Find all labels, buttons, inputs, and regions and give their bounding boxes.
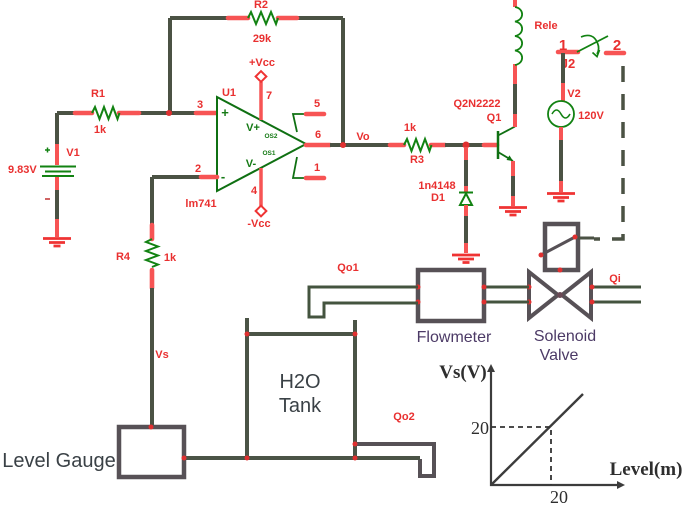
- transistor Q1: [453, 98, 515, 161]
- resistor R4: [116, 225, 177, 288]
- svg-text:20: 20: [471, 418, 489, 438]
- pipe Qi right: [527, 273, 642, 305]
- ground D1: [452, 255, 480, 263]
- wire Vs: [152, 288, 169, 427]
- pin 1 offset: [293, 157, 324, 178]
- svg-text:2: 2: [195, 163, 201, 175]
- graph dashed guides: [471, 418, 568, 506]
- wire D1 to ground: [464, 205, 468, 253]
- svg-text:R2: R2: [254, 0, 268, 11]
- flowmeter box: [416, 270, 493, 346]
- resistor R3: [390, 122, 484, 166]
- svg-text:+Vcc: +Vcc: [249, 57, 275, 69]
- svg-text:V-: V-: [246, 158, 257, 170]
- svg-text:1k: 1k: [94, 124, 107, 136]
- svg-text:Level Gauge: Level Gauge: [2, 450, 115, 472]
- source V2 120V: [548, 88, 605, 127]
- svg-text:R3: R3: [410, 154, 424, 166]
- wire V2 to ground: [559, 127, 563, 192]
- svg-text:U1: U1: [222, 87, 236, 99]
- ground V1: [43, 239, 71, 247]
- solenoid actuator box: [539, 224, 595, 273]
- svg-text:R4: R4: [116, 251, 131, 263]
- svg-text:Q1: Q1: [487, 112, 502, 124]
- svg-text:Flowmeter: Flowmeter: [417, 329, 492, 346]
- svg-text:Qo1: Qo1: [337, 262, 358, 274]
- svg-text:9.83V: 9.83V: [8, 164, 37, 176]
- svg-text:2: 2: [613, 37, 621, 54]
- svg-text:D1: D1: [431, 192, 445, 204]
- svg-text:R1: R1: [91, 88, 105, 100]
- svg-text:Valve: Valve: [540, 347, 579, 364]
- node junction R3/D1/Q1: [463, 142, 470, 149]
- wire Q1 collector: [513, 0, 517, 127]
- svg-text:Qo2: Qo2: [393, 411, 414, 423]
- graph line: [491, 394, 583, 485]
- svg-text:Level(m): Level(m): [610, 459, 683, 480]
- battery V1: [8, 113, 80, 199]
- svg-text:+: +: [221, 105, 229, 120]
- pin 4 -Vcc: [247, 168, 270, 230]
- svg-text:1k: 1k: [404, 122, 417, 134]
- pipe flowmeter to valve: [484, 287, 529, 302]
- svg-text:1n4148: 1n4148: [418, 180, 455, 192]
- pin 5 offset: [293, 98, 324, 132]
- op-amp U1: [185, 87, 306, 210]
- svg-text:1: 1: [314, 162, 320, 174]
- inductor relay coil Rele: [515, 7, 558, 65]
- svg-text:OS1: OS1: [262, 150, 275, 157]
- svg-text:Vs(V): Vs(V): [439, 362, 487, 383]
- wire tank bottom to level gauge: [184, 456, 420, 460]
- svg-text:Vs: Vs: [155, 349, 168, 361]
- pin 7 +Vcc: [249, 57, 275, 120]
- node junction R1/R2/pin3: [166, 110, 172, 116]
- svg-text:Q2N2222: Q2N2222: [453, 98, 500, 110]
- wire R2 top net: [170, 18, 343, 145]
- svg-text:20: 20: [550, 487, 568, 506]
- svg-text:120V: 120V: [578, 110, 604, 122]
- svg-text:Tank: Tank: [279, 395, 322, 417]
- ground V2: [547, 194, 575, 202]
- dashed control line J2 to solenoid: [594, 66, 623, 239]
- svg-text:V2: V2: [567, 88, 580, 100]
- level gauge box: [2, 425, 186, 478]
- graph axes: [439, 362, 682, 489]
- svg-text:5: 5: [314, 98, 320, 110]
- svg-text:1: 1: [559, 37, 567, 54]
- pipe Qo1 into tank: [309, 262, 418, 317]
- svg-text:4: 4: [251, 185, 258, 197]
- resistor R1: [57, 88, 217, 136]
- svg-text:OS2: OS2: [264, 133, 277, 140]
- pin 2 wire: [152, 163, 217, 225]
- svg-text:7: 7: [266, 90, 272, 102]
- pipe Qo2 out of tank: [353, 411, 435, 476]
- ground Q1: [499, 208, 527, 216]
- svg-text:29k: 29k: [253, 33, 272, 45]
- svg-text:-: -: [221, 169, 225, 184]
- svg-text:Qi: Qi: [609, 273, 621, 285]
- svg-text:V1: V1: [66, 147, 79, 159]
- wire J2 to V2: [561, 53, 565, 101]
- node junctions tank bottom: [245, 456, 250, 461]
- svg-text:-Vcc: -Vcc: [247, 218, 270, 230]
- svg-text:Rele: Rele: [534, 20, 557, 32]
- svg-text:V+: V+: [246, 122, 260, 134]
- svg-text:Solenoid: Solenoid: [534, 328, 596, 345]
- diode D1: [418, 147, 473, 205]
- solenoid valve body: [529, 272, 596, 364]
- pin 6 output wire Vo: [306, 129, 390, 148]
- wire V1 to ground: [55, 177, 59, 237]
- svg-text:H2O: H2O: [279, 371, 320, 393]
- wire Q1 emitter to ground: [511, 161, 515, 206]
- H2O tank: [245, 318, 358, 458]
- resistor R2: [248, 0, 278, 45]
- svg-text:lm741: lm741: [185, 198, 216, 210]
- svg-text:3: 3: [197, 99, 203, 111]
- svg-text:6: 6: [315, 129, 321, 141]
- svg-text:1k: 1k: [164, 252, 177, 264]
- svg-text:Vo: Vo: [356, 131, 370, 143]
- switch J2: [558, 35, 624, 71]
